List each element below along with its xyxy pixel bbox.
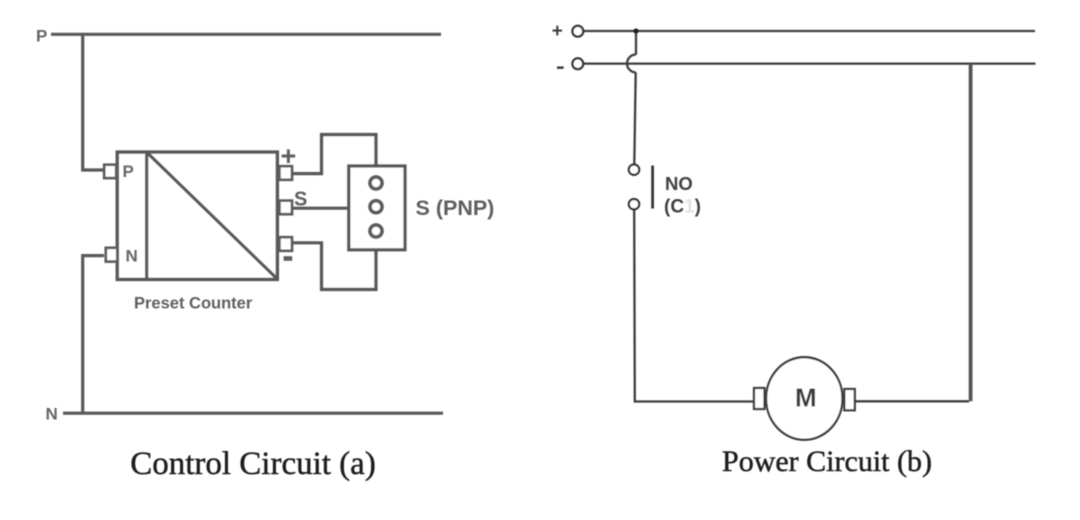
svg-text:N: N (126, 247, 138, 266)
svg-text:+: + (281, 141, 297, 171)
svg-text:Control Circuit (a): Control Circuit (a) (130, 446, 376, 482)
svg-text:(C1): (C1) (664, 197, 701, 218)
svg-text:N: N (46, 405, 58, 424)
svg-text:NO: NO (665, 173, 693, 194)
svg-text:Power Circuit (b): Power Circuit (b) (722, 445, 932, 478)
svg-text:S (PNP): S (PNP) (416, 196, 495, 220)
svg-text:P: P (36, 27, 47, 46)
svg-text:M: M (795, 383, 817, 413)
svg-text:S: S (294, 189, 307, 211)
svg-text:P: P (123, 162, 134, 181)
svg-text:Preset Counter: Preset Counter (134, 295, 253, 313)
svg-text:+: + (552, 21, 563, 42)
